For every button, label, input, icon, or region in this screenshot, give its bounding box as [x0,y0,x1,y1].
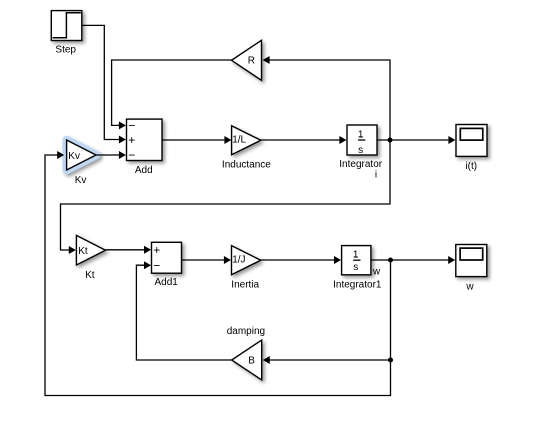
svg-text:+: + [128,133,135,147]
svg-text:Kt: Kt [85,270,95,281]
svg-text:Integrator: Integrator [339,159,382,170]
svg-text:s: s [353,262,358,273]
svg-text:Inertia: Inertia [231,280,259,291]
svg-text:Add1: Add1 [155,277,179,288]
svg-text:damping: damping [227,326,265,337]
svg-text:−: − [153,258,160,272]
svg-text:i: i [375,170,377,181]
svg-text:w: w [372,267,381,278]
svg-text:−: − [128,119,135,133]
svg-text:i(t): i(t) [465,161,477,172]
svg-text:Kt: Kt [78,246,88,257]
svg-text:1: 1 [358,129,364,140]
svg-text:Kv: Kv [75,175,87,186]
svg-text:1/J: 1/J [232,255,245,266]
svg-text:Add: Add [135,165,153,176]
svg-text:Step: Step [55,44,76,55]
svg-text:−: − [128,148,135,162]
svg-text:s: s [358,145,363,156]
svg-text:Kv: Kv [68,151,80,162]
svg-text:w: w [465,282,474,293]
svg-text:1/L: 1/L [232,135,246,146]
svg-text:+: + [153,243,160,257]
svg-text:Integrator1: Integrator1 [333,279,382,290]
svg-text:1: 1 [353,249,359,260]
svg-text:B: B [248,355,255,366]
svg-text:Inductance: Inductance [222,159,271,170]
svg-text:R: R [248,55,255,66]
